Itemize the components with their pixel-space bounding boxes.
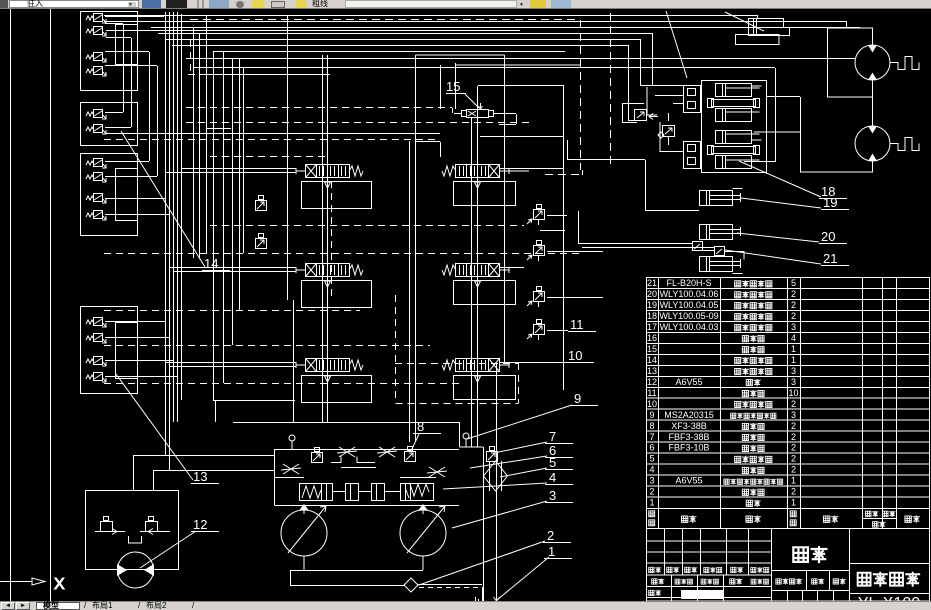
pilot check valve A3 [86,53,106,63]
table row 17 [647,322,796,332]
directional valve V1L [296,165,363,178]
directional valve V3R (mirrored) [442,359,509,372]
svg-text:10: 10 [788,388,798,398]
throttle T2 [377,447,397,457]
pilot check valve B1 [86,110,106,120]
svg-text:10: 10 [647,399,657,409]
svg-text:FBF3-10B: FBF3-10B [668,443,709,453]
cylinder 20 [700,257,743,274]
label 7 [494,429,573,453]
parts table grid [646,278,930,602]
connector block CB1 [684,86,701,113]
svg-text:WLY100.04.06: WLY100.04.06 [660,289,719,299]
svg-text:19: 19 [823,195,837,210]
relief block RB2 [527,241,545,262]
wire box A outputs [105,17,164,177]
svg-text:FL-B20H-S: FL-B20H-S [666,278,711,288]
connector block CB2 [684,142,701,169]
cylinder 19 [700,225,741,240]
relief valve with spring RS2 [401,484,434,501]
station box under V3L [302,376,372,403]
pilot check valve D2 [86,334,106,344]
label 19 [741,195,849,210]
hydraulic motor M1 [855,45,890,80]
pilot check valve C2 [86,173,106,183]
svg-text:5: 5 [549,455,556,470]
wire valve V3R outlet to label 10 [500,331,568,363]
table row 11 [647,388,798,398]
merge valve 15 [454,103,517,125]
wire box B outputs [105,113,440,134]
table row 21 [647,278,796,288]
cylinder F4 [716,156,760,169]
svg-text:12: 12 [193,517,207,532]
station box under V3R [454,376,516,400]
pilot check valve A1 [86,14,106,24]
svg-text:3: 3 [549,488,556,503]
pilot manifold box 13 [86,491,179,570]
title text 液压 [793,546,827,563]
pilot check valve A2 [86,27,106,37]
pilot valve left of V2L [256,234,267,249]
svg-text:11: 11 [570,317,584,332]
title text 液压系统 [858,572,921,587]
svg-text:15: 15 [446,79,460,94]
svg-text:1: 1 [791,344,796,354]
svg-text:1: 1 [649,498,654,508]
table row 8 [649,421,796,431]
svg-text:3: 3 [791,410,796,420]
pilot check valve C3 [86,194,106,204]
flow divider bar FD1 [708,99,760,108]
wire spring valve links [332,491,400,493]
label 10 [566,348,594,363]
pilot block PB2 [372,484,385,501]
svg-text:21: 21 [647,278,657,288]
wire tank dashed suction line [419,585,483,604]
wire box 13 risers [134,455,275,490]
label 3 [452,488,573,528]
table row 14 [647,355,796,365]
directional valve V1R (mirrored) [442,165,509,178]
pilot check valve C1 [86,159,106,169]
svg-text:3: 3 [791,322,796,332]
table row 16 [647,333,796,343]
pilot check valve D1 [86,318,106,328]
relief valve RV-b [663,113,675,145]
wire valve V2L inlet lines [169,268,296,272]
frame border line left [10,9,12,601]
wire pilot lattice left [186,40,529,157]
directional valve V2R (mirrored) [442,264,509,277]
cylinder 18 [700,189,743,206]
svg-text:4: 4 [791,333,796,343]
table row 12 [647,377,796,387]
wire dashed mid horizontals [104,140,580,401]
table row 10 [647,399,796,409]
svg-text:2: 2 [791,311,796,321]
check diamond near RV-a [649,114,664,139]
wire motor M2 loop [754,97,919,172]
svg-text:13: 13 [647,366,657,376]
svg-text:9: 9 [574,391,581,406]
table row 6 [649,443,796,453]
label 2 [419,528,571,585]
svg-text:12: 12 [647,377,657,387]
svg-text:4: 4 [549,470,556,485]
wire valve V1R outlet to relief [500,169,567,216]
pilot valve PV7 [487,447,498,462]
wire box C outputs [105,162,169,215]
svg-text:WLY100.04.05: WLY100.04.05 [660,300,719,310]
svg-text:A6V55: A6V55 [675,476,702,486]
title text YL-X100 [858,595,920,610]
table row 4 [649,465,796,475]
check valve CK13a [95,517,125,535]
table row 9 [649,410,796,420]
pressure gauge G2 [463,433,469,447]
pilot check valve A4 [86,67,106,77]
table row 13 [647,366,796,376]
svg-text:9: 9 [649,410,654,420]
wire vertical bus cluster [166,12,207,470]
check arrow under valve V3R [475,371,481,388]
svg-text:16: 16 [647,333,657,343]
svg-text:2: 2 [791,399,796,409]
cylinder F3 [716,131,762,144]
svg-text:2: 2 [791,465,796,475]
svg-text:1: 1 [791,355,796,365]
svg-text:WLY100.04.03: WLY100.04.03 [660,322,719,332]
svg-text:1: 1 [791,498,796,508]
svg-text:2: 2 [791,421,796,431]
relief block RB3 [527,287,545,308]
label 9 [467,391,598,439]
svg-text:18: 18 [647,311,657,321]
svg-text:20: 20 [821,229,835,244]
table row 3 [649,476,796,486]
directional valve V2L [296,264,363,277]
check arrow under valve V2L [325,276,331,293]
svg-text:A6V55: A6V55 [675,377,702,387]
table row 18 [647,311,796,321]
pressure gauge G1 [289,435,295,449]
svg-text:14: 14 [647,355,657,365]
flow divider bar FD2 [708,146,760,155]
svg-text:2: 2 [791,454,796,464]
svg-text:2: 2 [791,300,796,310]
svg-text:3: 3 [791,366,796,376]
throttle T4 [427,467,447,477]
cylinder 17 top right [736,18,790,45]
manifold box group B [81,103,138,146]
tab bar [0,601,931,610]
pilot check P20a [693,242,703,251]
UCS icon X axis [0,576,65,593]
manifold box group A [81,12,138,91]
label 21 [725,250,849,266]
shuttle motor 12 [117,552,154,588]
pilot valve left of V1L [256,196,267,211]
svg-text:X: X [54,576,65,593]
hydraulic motor M2 [855,126,890,161]
check arrow under valve V3L [325,371,331,388]
tank symbol in box [129,536,142,543]
table row 19 [647,300,796,310]
highlighted field [681,590,723,599]
table row 20 [647,289,796,299]
svg-text:2: 2 [791,443,796,453]
svg-text:4: 4 [649,465,654,475]
table row 1 [649,498,796,508]
title block grid [646,528,930,601]
tank drain arrow [494,595,500,601]
label 20 [737,229,847,244]
pilot valve PV8 (label 8) [405,447,416,462]
cylinder F1 [716,84,762,97]
check valve CK13b [140,517,170,535]
designer row [649,578,769,607]
svg-text:5: 5 [791,278,796,288]
svg-text:2: 2 [791,487,796,497]
leader to pressure gauge 16 [666,11,687,78]
label 5 [500,455,573,477]
svg-text:5: 5 [649,454,654,464]
svg-text:2: 2 [791,289,796,299]
label 8 [411,419,441,451]
label 6 [470,443,573,468]
svg-text:11: 11 [647,388,656,398]
svg-text:2: 2 [791,432,796,442]
wire valve V1L inlet lines [165,169,296,173]
label 11 [568,317,596,332]
svg-text:7: 7 [549,429,556,444]
wire dashed center verticals [332,181,519,404]
stage mark cells [776,578,846,584]
wire pump suction [290,505,423,586]
svg-text:1: 1 [548,544,555,559]
wire box D outputs [105,322,177,377]
wire motor M1 loop [766,21,919,97]
svg-text:2: 2 [547,528,554,543]
relief block RB4 [527,320,545,341]
svg-text:3: 3 [649,476,654,486]
station box under V1L [302,182,372,209]
pilot check valve D4 [86,373,106,383]
relief block column: block RB1 [527,205,545,226]
svg-text:13: 13 [193,469,207,484]
wire left ring verticals [214,15,288,400]
manifold box group C [81,154,138,236]
svg-text:6: 6 [649,443,654,453]
wire center vertical runs [294,33,653,603]
svg-text:8: 8 [649,421,654,431]
station box under V2L [302,281,372,308]
cylinder F2 [716,109,760,122]
label 1 [497,544,572,600]
svg-text:15: 15 [647,344,657,354]
wire cylinder feeds [540,140,744,260]
pilot check valve C4 [86,211,106,221]
suction filter F1 [404,578,424,592]
svg-text:1: 1 [791,476,796,486]
relief valve with spring RS1 [300,484,333,501]
pump P1 [281,504,327,556]
label 4 [443,470,573,489]
station box under V1R [454,182,516,206]
frame border line inner [50,9,52,601]
svg-text:XF3-38B: XF3-38B [671,421,707,431]
leader to cylinder 17 [725,12,764,31]
svg-text:17: 17 [647,322,657,332]
pilot check valve D3 [86,357,106,367]
svg-text:8: 8 [417,419,424,434]
label 18 [739,161,847,199]
check arrow under valve V1L [325,177,331,194]
check arrow under valve V2R [475,276,481,293]
svg-text:10: 10 [568,348,582,363]
svg-text:3: 3 [791,377,796,387]
svg-text:MS2A20315: MS2A20315 [664,410,714,420]
label 14 [121,131,230,271]
label 15 [446,79,479,108]
throttle T3 [281,464,301,474]
revision row labels [649,567,769,573]
tank tick marks [476,597,479,602]
table row 7 [649,432,796,442]
return filter diamond [484,461,508,491]
directional valve V3L [296,359,363,372]
wire pump block internals [274,457,436,478]
throttle T1 [337,447,357,457]
pilot check valve B2 [86,125,106,135]
svg-text:21: 21 [823,251,837,266]
svg-text:WLY100.05-09: WLY100.05-09 [659,311,718,321]
wire pump block top outline [215,400,484,601]
table row 15 [647,344,796,354]
relief valve RV-a [635,87,658,121]
toolbar [0,0,931,9]
svg-text:FBF3-38B: FBF3-38B [668,432,709,442]
pilot block PB1 [346,484,359,501]
svg-text:19: 19 [647,300,657,310]
check arrow under valve V1R [475,177,481,194]
label 12 [140,517,219,568]
wire valve V3L inlet lines [165,363,296,367]
table header [649,511,920,528]
wire cluster feed lines [640,85,701,216]
wire top bus horizontals [104,15,860,162]
svg-text:20: 20 [647,289,657,299]
pilot check P20b [715,247,725,256]
wire right ring verticals [478,13,683,390]
pilot valve PV8a [312,448,323,463]
svg-text:7: 7 [649,432,654,442]
wire valve V2R outlet [500,252,603,298]
table row 2 [649,487,796,497]
flow divider cluster outer box [702,81,767,173]
label 13 [116,374,219,484]
pump P2 [400,504,446,556]
manifold box group D [81,307,138,394]
table row 5 [649,454,796,464]
station box under V2R [454,281,516,305]
svg-text:14: 14 [204,256,218,271]
svg-text:2: 2 [649,487,654,497]
